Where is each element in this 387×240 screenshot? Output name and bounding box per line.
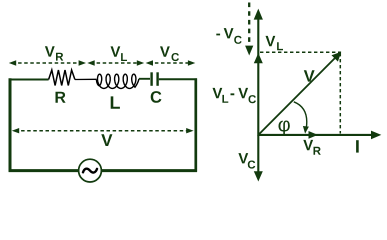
label V — [101, 134, 112, 146]
dashed projection vertical from V tip down to I axis — [339, 53, 341, 134]
label VC phasor bottom — [238, 153, 255, 169]
capacitor C left plate — [150, 72, 152, 86]
inductor L — [96, 74, 139, 88]
label VC — [160, 46, 179, 61]
label C — [151, 91, 162, 103]
phasor -VC dashed arrow down — [245, 3, 253, 56]
phasor V arrow diagonal — [259, 52, 341, 135]
label V phasor — [304, 70, 315, 81]
wire between resistor and inductor — [75, 78, 97, 80]
arrow V dashed double-headed — [12, 128, 194, 133]
label I axis — [356, 140, 359, 152]
label -VC — [216, 28, 241, 44]
label VR on axis — [303, 140, 321, 155]
AC source — [79, 159, 102, 182]
label VL phasor — [266, 36, 284, 50]
label L — [111, 96, 120, 108]
capacitor C right plate — [156, 72, 158, 86]
arrow VR dashed double-headed — [9, 60, 86, 65]
curved arrow marking angle phi — [294, 102, 309, 134]
wire right side of circuit loop — [194, 78, 197, 171]
wire between inductor and capacitor — [139, 78, 150, 80]
phasor VR arrowhead on horizontal axis — [309, 131, 318, 139]
phasor horizontal axis I arrow — [258, 131, 381, 140]
phasor VC arrow down — [254, 135, 263, 182]
resistor R — [49, 70, 75, 86]
wire bottom of circuit loop — [9, 169, 197, 172]
label VR — [45, 46, 63, 60]
label VL — [111, 46, 128, 61]
wire top-left segment to resistor — [9, 79, 49, 81]
phasor vertical axis VL arrow up — [254, 9, 263, 136]
dashed projection horizontal from VL tip to V tip — [260, 51, 341, 53]
label phi — [279, 121, 290, 136]
arrow VL dashed double-headed — [87, 60, 144, 65]
label R — [56, 92, 66, 103]
wire left side of circuit loop — [9, 78, 12, 172]
wire capacitor to top-right corner — [159, 78, 197, 80]
arrow VC dashed double-headed — [146, 60, 196, 65]
label VL minus VC — [213, 88, 257, 103]
phasor VL-VC arrowhead on vertical axis — [254, 53, 263, 63]
